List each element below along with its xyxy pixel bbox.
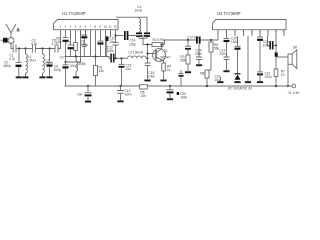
node rail C18b bbox=[169, 85, 171, 87]
node rail R6 bbox=[206, 85, 208, 87]
wire jack to C1 bbox=[11, 44, 13, 49]
ground under C2 bbox=[16, 76, 22, 78]
IC U1 TA2003P bbox=[54, 11, 119, 30]
ground under C19 bbox=[196, 64, 202, 66]
capacitor C16 100n (base decoupling) bbox=[145, 54, 156, 80]
svg-text:10u: 10u bbox=[110, 40, 116, 44]
capacitor C15 10n (under supply line) bbox=[119, 58, 132, 86]
svg-text:Q1: Q1 bbox=[164, 49, 168, 53]
svg-text:560: 560 bbox=[200, 72, 206, 76]
svg-text:4.7p: 4.7p bbox=[31, 42, 37, 46]
capacitor C14 100p (series coupling, black) bbox=[116, 31, 148, 46]
capacitor C2 (tuning) bbox=[4, 49, 22, 77]
ground under D1 bbox=[234, 81, 240, 83]
resistor R2 470k (feedback) bbox=[148, 38, 165, 54]
svg-text:100u: 100u bbox=[180, 95, 187, 99]
capacitor C1 4.7p bbox=[9, 45, 16, 62]
capacitor C3 4.7p bbox=[31, 39, 37, 53]
node collector bbox=[160, 43, 162, 45]
capacitor C18 column lower bbox=[220, 49, 230, 71]
ground under L2 bbox=[39, 76, 45, 78]
oscillator coil L4 bbox=[135, 5, 143, 36]
output wire pin8 bbox=[275, 36, 277, 57]
wire pin5 to ground bbox=[247, 36, 249, 81]
ground under emitter bbox=[160, 65, 171, 82]
svg-text:100n: 100n bbox=[148, 75, 155, 79]
capacitor C4 and y62 branch wire bbox=[45, 49, 61, 77]
svg-text:DC SOURCE 3V: DC SOURCE 3V bbox=[228, 86, 253, 90]
svg-text:4.7p: 4.7p bbox=[9, 57, 15, 61]
svg-text:56k: 56k bbox=[181, 59, 187, 63]
svg-text:10k: 10k bbox=[99, 69, 105, 73]
svg-text:680p: 680p bbox=[4, 64, 11, 68]
inductor L3 100mH (supply filter) bbox=[128, 51, 149, 60]
diode D1 (pin4 column) bbox=[235, 36, 241, 80]
coupling blob bbox=[275, 53, 278, 57]
svg-text:100n: 100n bbox=[107, 49, 114, 53]
svg-text:C7: C7 bbox=[66, 41, 70, 45]
oscillator capacitor bbox=[139, 33, 150, 38]
speaker return wire bbox=[287, 64, 289, 86]
node at L2 drop bbox=[41, 47, 43, 49]
capacitor C20 100u (pin2, black) bbox=[224, 36, 239, 57]
svg-text:10: 10 bbox=[104, 25, 108, 29]
ground under R3 bbox=[185, 71, 191, 73]
capacitor C5 4.7p bbox=[52, 39, 59, 53]
ground bus under U1 bbox=[65, 57, 111, 59]
capacitor under rail at 170 bbox=[167, 86, 174, 98]
wire to speaker bbox=[276, 56, 288, 58]
resistor R6 column bbox=[200, 39, 220, 86]
wire C3 to C5 bbox=[36, 48, 55, 50]
svg-text:100: 100 bbox=[141, 94, 147, 98]
svg-text:U2 TA7368P: U2 TA7368P bbox=[217, 11, 241, 16]
svg-text:100n: 100n bbox=[195, 52, 202, 56]
capacitor C17 10u (series coupling, black) bbox=[187, 36, 218, 44]
svg-text:100p: 100p bbox=[81, 43, 88, 47]
transistor Q1 BC547 bbox=[148, 45, 171, 62]
svg-text:11: 11 bbox=[109, 25, 112, 29]
output branch pin7 with series capacitor C20 bbox=[263, 36, 276, 49]
capacitor C13 100n bbox=[117, 86, 132, 100]
wire pin10 to bus bbox=[105, 36, 107, 57]
ground under pin5 wire bbox=[245, 81, 251, 83]
svg-text:100u: 100u bbox=[265, 75, 272, 79]
U2 pin stubs bbox=[218, 30, 284, 36]
svg-text:100p: 100p bbox=[129, 42, 136, 46]
svg-text:SP: SP bbox=[293, 46, 297, 50]
U2 pin numbers bbox=[217, 30, 285, 34]
capacitor C10 10u (pin9) bbox=[98, 36, 116, 57]
IC U2 TA7368P bbox=[213, 11, 287, 30]
resistor R3 56k column bbox=[181, 40, 192, 71]
node at L1 drop bbox=[24, 47, 26, 49]
capacitor C21 10u column (pin4) bbox=[215, 75, 224, 84]
svg-text:12: 12 bbox=[114, 25, 118, 29]
ground bbox=[167, 98, 173, 100]
ground under C22 bbox=[257, 81, 263, 83]
wire C5 to U1 pin1 riser bbox=[59, 36, 61, 49]
capacitor C7 10u (pin3) bbox=[66, 36, 74, 57]
supply terminal bbox=[288, 84, 301, 95]
svg-text:10uH: 10uH bbox=[45, 62, 53, 66]
svg-text:100n: 100n bbox=[125, 93, 132, 97]
capacitor on pin12 column 100p bbox=[113, 36, 119, 59]
svg-text:+3..4.5V: +3..4.5V bbox=[288, 91, 301, 95]
resistor R1 10k (pin8) bbox=[94, 36, 105, 86]
resistor R7 (pin8 to rail) bbox=[274, 57, 285, 86]
antenna jack J1 bbox=[1, 38, 15, 44]
collector wire to audio stage bbox=[165, 40, 197, 45]
inductor L1 10uH bbox=[26, 49, 37, 77]
wire C1 to C3 bbox=[17, 48, 32, 50]
svg-text:L3 100mH: L3 100mH bbox=[129, 51, 144, 55]
U1 pin numbers bbox=[60, 25, 118, 29]
svg-text:10uH: 10uH bbox=[28, 59, 36, 63]
resistor R5 100 (series in rail) bbox=[140, 85, 148, 98]
node at C2 drop bbox=[18, 47, 20, 49]
capacitor C19 100n column bbox=[195, 44, 202, 65]
wire U2 pin1 to input bbox=[217, 36, 219, 40]
bottom supply rail bbox=[65, 85, 292, 87]
antenna A1 bbox=[6, 24, 20, 37]
node rail C13a bbox=[87, 85, 89, 87]
wire pin5 to y62 branch bbox=[66, 30, 81, 62]
svg-text:10: 10 bbox=[281, 73, 285, 77]
svg-text:10u: 10u bbox=[56, 40, 62, 44]
svg-text:C9: C9 bbox=[60, 56, 64, 60]
svg-text:455k: 455k bbox=[79, 62, 86, 66]
svg-text:BC547: BC547 bbox=[161, 56, 171, 60]
svg-text:C17 10u: C17 10u bbox=[187, 36, 199, 40]
capacitor C22 100u (pin6 Vcc, black) bbox=[257, 36, 272, 81]
svg-text:100p: 100p bbox=[54, 68, 61, 72]
ground under X1 bbox=[73, 76, 79, 78]
emitter wire to ground bbox=[162, 61, 164, 64]
capacitor C11 column (bus left end to rail) bbox=[60, 56, 77, 87]
inductor L2 bbox=[43, 49, 45, 77]
ground under C13a bbox=[85, 101, 91, 103]
speaker SP bbox=[288, 46, 297, 69]
capacitor C9 100p (pin6) bbox=[81, 30, 88, 57]
node col A bbox=[187, 39, 189, 41]
capacitor C6 10u (pin2) bbox=[56, 36, 69, 57]
ground under C4 bbox=[46, 76, 52, 78]
capacitor C12 100n (series in supply line) bbox=[107, 46, 128, 63]
capacitor C22b near 180 bbox=[177, 70, 188, 99]
ground under C16 bbox=[144, 80, 150, 82]
svg-text:10uH: 10uH bbox=[135, 8, 143, 12]
wire pin11 riser bbox=[110, 30, 112, 37]
capacitor C11b (black, near pin10) bbox=[105, 36, 109, 56]
svg-text:10u: 10u bbox=[215, 78, 221, 82]
oscillator wire from U1 top right bbox=[116, 17, 147, 33]
svg-text:100p: 100p bbox=[70, 64, 77, 68]
svg-text:R2 470k: R2 470k bbox=[153, 38, 165, 42]
ground under C18 bbox=[223, 70, 229, 72]
svg-text:1k: 1k bbox=[167, 68, 171, 72]
svg-text:10n: 10n bbox=[126, 67, 132, 71]
node bus/L filter bbox=[75, 55, 77, 57]
capacitor C13a 10u (rail decoupling) bbox=[77, 86, 92, 101]
U1 pin stubs bbox=[61, 30, 116, 36]
ground under C13 bbox=[117, 100, 123, 102]
svg-text:100u: 100u bbox=[263, 44, 270, 48]
capacitor C8 (pin4) bbox=[74, 36, 78, 57]
svg-text:10u: 10u bbox=[77, 93, 83, 97]
inductor X1 455k (bus filter) bbox=[76, 57, 86, 77]
svg-text:A: A bbox=[17, 28, 20, 32]
wire pin7 to bus bbox=[90, 36, 92, 57]
svg-text:100u: 100u bbox=[220, 52, 227, 56]
svg-text:U1 TA2003P: U1 TA2003P bbox=[62, 11, 86, 16]
node rail C13 bbox=[119, 85, 121, 87]
ground under L1 bbox=[22, 76, 28, 78]
